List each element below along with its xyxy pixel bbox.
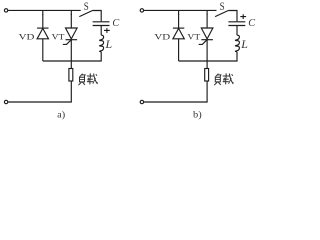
terminal a-top-left (4, 9, 7, 12)
svg-text:b): b) (193, 110, 202, 121)
svg-text:VD: VD (154, 33, 170, 42)
switch S blade (a) (79, 11, 92, 17)
wire capacitor to inductor (b) (236, 26, 238, 35)
wire top rail (b) (144, 9, 217, 11)
wire inductor to mid rail (b) (179, 52, 237, 61)
wire switch to capacitor corner (b) (228, 11, 237, 22)
diode VD anode wire (a) (42, 14, 44, 28)
wire top rail (a) (8, 9, 81, 11)
node VD-top junction (a) (42, 10, 44, 15)
terminal b-bottom-left (140, 100, 143, 103)
diode VD triangle (a) (37, 28, 48, 38)
thyristor VT cathode wire (b) (206, 40, 208, 61)
label "fu" (load char 1) (214, 74, 221, 86)
diode VD cathode bar (b) (173, 27, 184, 29)
terminal b-top-left (140, 9, 143, 12)
svg-text:C: C (112, 18, 119, 29)
svg-text:L: L (104, 39, 112, 51)
wire mid rail to load (b) (206, 61, 208, 69)
capacitor C bottom plate (b) (228, 25, 245, 27)
thyristor VT triangle (a) (66, 28, 78, 39)
inductor L coil (b) (235, 35, 239, 52)
label "zai" (load char 2) (87, 73, 98, 84)
svg-text:a): a) (57, 110, 65, 121)
node VD-top junction (b) (178, 10, 180, 15)
load resistor box (b) (205, 69, 209, 82)
svg-text:S: S (220, 0, 225, 13)
diode VD bottom wire (a) (42, 39, 44, 61)
node VT-top junction (b) (206, 10, 208, 15)
wire mid rail to load (a) (70, 61, 72, 69)
switch S blade (b) (215, 11, 228, 17)
diode VD cathode bar (a) (37, 27, 48, 29)
wire load to bottom rail (a) (8, 81, 71, 102)
capacitor polarity plus sign (b) (240, 14, 246, 19)
label "zai" (load char 2) (223, 73, 234, 84)
capacitor polarity plus sign (a) (104, 28, 110, 33)
thyristor VT anode wire (a) (70, 14, 72, 28)
wire capacitor to inductor (a) (100, 26, 102, 35)
capacitor C top plate (b) (228, 21, 245, 23)
diode VD bottom wire (b) (178, 39, 180, 61)
svg-text:S: S (84, 0, 89, 13)
capacitor C bottom plate (a) (93, 25, 110, 27)
terminal a-bottom-left (4, 100, 7, 103)
capacitor C top plate (a) (93, 21, 110, 23)
wire load to bottom rail (b) (144, 81, 207, 102)
label "fu" (load char 1) (78, 74, 85, 86)
thyristor VT gate lead (b) (199, 40, 208, 45)
inductor L coil (a) (100, 35, 104, 52)
svg-text:VT: VT (52, 33, 65, 42)
thyristor VT gate lead (a) (63, 40, 72, 45)
diode VD triangle (b) (173, 28, 184, 38)
svg-text:C: C (248, 18, 255, 29)
thyristor VT triangle (b) (201, 28, 213, 39)
svg-text:VD: VD (19, 33, 35, 42)
wire inductor to mid rail (a) (43, 52, 101, 61)
wire switch to capacitor corner (a) (93, 11, 102, 22)
svg-text:L: L (240, 39, 248, 51)
thyristor VT cathode bar (a) (66, 39, 78, 41)
thyristor VT cathode wire (a) (70, 40, 72, 61)
diode VD anode wire (b) (178, 14, 180, 28)
node VT-top junction (a) (70, 10, 72, 15)
svg-text:VT: VT (187, 33, 200, 42)
load resistor box (a) (69, 69, 73, 82)
thyristor VT cathode bar (b) (201, 39, 213, 41)
thyristor VT anode wire (b) (206, 14, 208, 28)
